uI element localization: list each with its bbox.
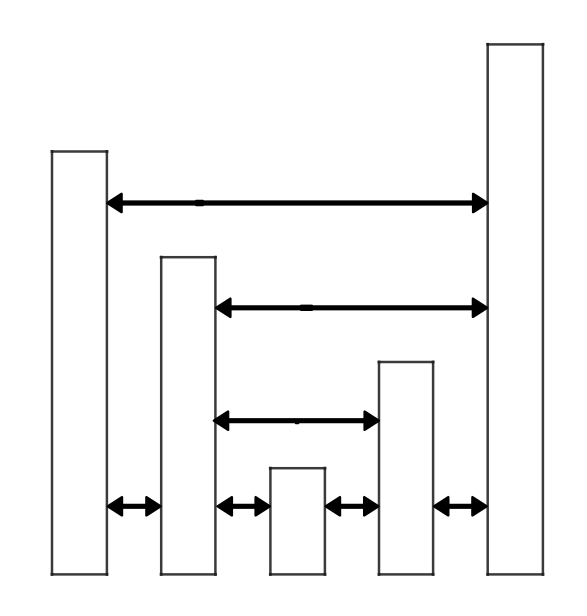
label bump on arrow A3 <box>295 419 300 424</box>
arrow A1 (double arrow bar1 to bar5) <box>108 194 488 212</box>
arrow A2 (double arrow bar2 to bar5) <box>216 299 487 317</box>
label bump on arrow A1 <box>195 200 204 207</box>
arrow A3 (double arrow bar2 to bar4) <box>214 412 379 430</box>
bar 3 (short middle bar) <box>269 467 327 576</box>
small arrow S4 (bar4 to bar5 gap) <box>434 497 486 515</box>
small arrow S3 (bar3 to bar4 gap) <box>326 497 378 515</box>
small arrow S2 (bar2 to bar3 gap) <box>218 497 270 515</box>
small arrow S1 (bar1 to bar2 gap) <box>108 497 161 515</box>
bar 4 <box>378 361 435 576</box>
label bump on arrow A2 <box>300 305 313 311</box>
bar 5 (tall right bar) <box>486 43 544 576</box>
bar 1 (tall left bar) <box>51 150 109 576</box>
bar 2 <box>160 256 217 576</box>
